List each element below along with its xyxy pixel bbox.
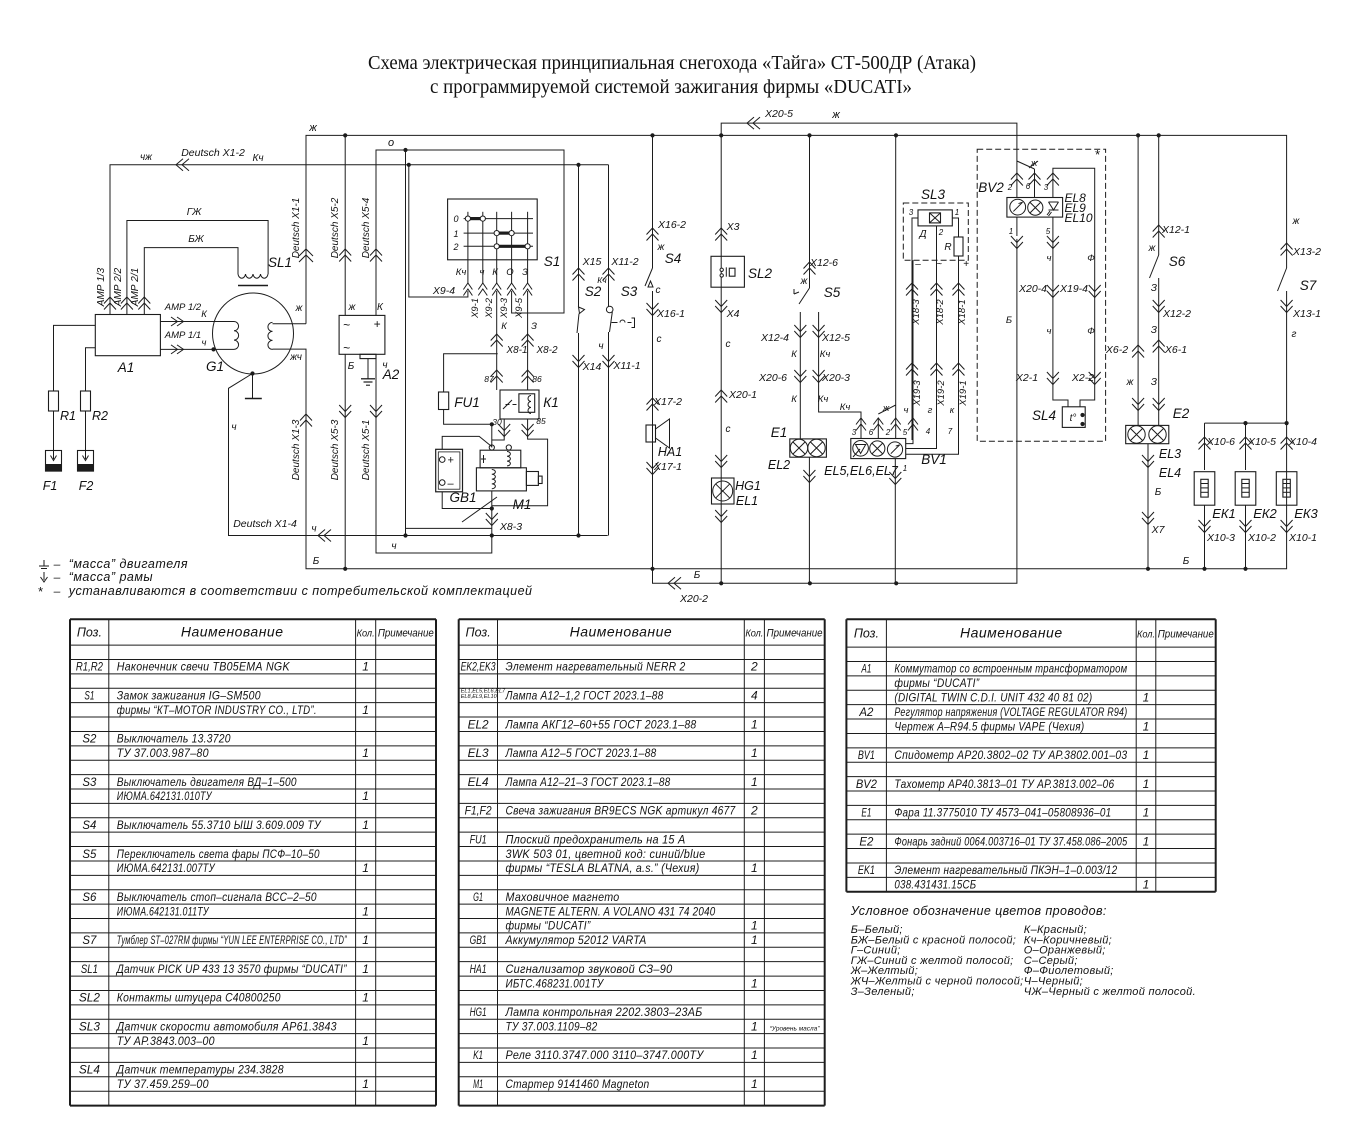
svg-text:~: ~	[936, 259, 942, 270]
svg-text:EL1: EL1	[736, 494, 758, 508]
svg-text:ИЮМА.642131.007ТУ: ИЮМА.642131.007ТУ	[117, 861, 216, 875]
svg-text:АМР 1/2: АМР 1/2	[164, 302, 202, 313]
svg-text:SL1: SL1	[268, 255, 292, 270]
svg-text:фирмы “КТ–MOTOR INDUSTRY CO.,: фирмы “КТ–MOTOR INDUSTRY CO., LTD”.	[117, 703, 317, 717]
svg-text:1: 1	[751, 1077, 758, 1091]
svg-text:К1: К1	[543, 395, 558, 410]
svg-text:чж: чж	[140, 152, 153, 163]
svg-text:Элемент нагревательный NERR 2: Элемент нагревательный NERR 2	[506, 660, 686, 674]
svg-text:ж: ж	[1126, 377, 1135, 388]
svg-text:1: 1	[362, 933, 369, 947]
svg-text:Примечание: Примечание	[1158, 629, 1214, 641]
svg-text:фирмы “DUCATI”: фирмы “DUCATI”	[506, 919, 592, 933]
svg-text:Датчик скорости автомобиля АР6: Датчик скорости автомобиля АР61.3843	[115, 1019, 337, 1033]
svg-text:ч: ч	[1047, 253, 1052, 264]
svg-text:SL1: SL1	[81, 962, 98, 976]
svg-text:ж: ж	[348, 302, 357, 313]
svg-text:+: +	[447, 455, 454, 467]
svg-text:R1,R2: R1,R2	[76, 660, 103, 674]
svg-text:Е1: Е1	[771, 425, 788, 440]
svg-text:A1: A1	[861, 662, 872, 676]
svg-text:Наименование: Наименование	[960, 625, 1063, 641]
svg-text:1: 1	[362, 904, 369, 918]
svg-text:Х17-1: Х17-1	[653, 461, 682, 473]
svg-text:ЕК1: ЕК1	[1212, 506, 1236, 521]
svg-text:1: 1	[362, 789, 369, 803]
svg-text:Контакты штуцера С40800250: Контакты штуцера С40800250	[117, 991, 281, 1005]
svg-text:–: –	[914, 259, 921, 270]
svg-text:Х18-3: Х18-3	[911, 299, 922, 326]
svg-text:BV2: BV2	[856, 777, 877, 791]
svg-text:Х20-5: Х20-5	[764, 108, 793, 120]
svg-text:Плоский предохранитель на 15 А: Плоский предохранитель на 15 А	[506, 832, 686, 846]
svg-text:1: 1	[903, 464, 907, 473]
svg-text:FU1: FU1	[470, 832, 487, 846]
svg-text:Кч: Кч	[252, 153, 263, 164]
svg-text:HA1: HA1	[470, 962, 487, 976]
svg-text:SL4: SL4	[79, 1063, 100, 1077]
svg-text:1: 1	[751, 1048, 758, 1062]
svg-text:Deutsch Х5-3: Deutsch Х5-3	[330, 419, 341, 480]
svg-text:1: 1	[1009, 227, 1013, 236]
svg-text:Х12-2: Х12-2	[1162, 308, 1191, 320]
svg-text:Х16-1: Х16-1	[656, 308, 685, 320]
svg-text:Кол.: Кол.	[1137, 630, 1155, 641]
svg-text:+: +	[373, 317, 380, 331]
svg-text:S1: S1	[544, 254, 561, 269]
svg-text:З: З	[1151, 377, 1157, 388]
svg-text:1: 1	[1143, 834, 1150, 848]
svg-text:EL5,EL6,EL7: EL5,EL6,EL7	[824, 464, 899, 478]
svg-text:Х10-1: Х10-1	[1288, 532, 1317, 544]
svg-text:2: 2	[885, 428, 891, 437]
svg-text:З: З	[1151, 283, 1157, 294]
svg-text:EL4: EL4	[468, 775, 489, 789]
svg-text:1: 1	[751, 746, 758, 760]
svg-text:Х6-1: Х6-1	[1164, 344, 1187, 356]
svg-text:SL3: SL3	[921, 187, 946, 202]
svg-text:S1: S1	[84, 688, 94, 702]
svg-text:Спидометр АР20.3802–02 ТУ АР.3: Спидометр АР20.3802–02 ТУ АР.3802.001–03	[894, 748, 1127, 762]
svg-text:30: 30	[492, 417, 502, 427]
svg-text:1: 1	[1143, 806, 1150, 820]
svg-text:7: 7	[948, 427, 953, 436]
svg-text:1: 1	[362, 962, 369, 976]
svg-text:S6: S6	[1169, 254, 1186, 269]
svg-text:EL3: EL3	[468, 746, 489, 760]
svg-text:Поз.: Поз.	[854, 627, 879, 641]
svg-text:Х19-4: Х19-4	[1059, 283, 1088, 295]
svg-text:ГЖ: ГЖ	[187, 207, 202, 218]
svg-text:Выключатель 13.3720: Выключатель 13.3720	[117, 732, 231, 746]
svg-text:Deutsch Х1-2: Deutsch Х1-2	[181, 147, 245, 159]
svg-text:1: 1	[751, 933, 758, 947]
svg-text:Х2-2: Х2-2	[1071, 372, 1094, 384]
svg-text:ИЮМА.642131.011ТУ: ИЮМА.642131.011ТУ	[117, 904, 210, 918]
svg-text:EK1: EK1	[858, 863, 875, 877]
svg-text:Реле 3110.3747.000 3110–3747: Реле 3110.3747.000 3110–3747.000ТУ	[506, 1048, 705, 1062]
svg-text:3: 3	[909, 208, 914, 217]
svg-text:З: З	[531, 321, 537, 332]
svg-text:ж: ж	[1148, 243, 1157, 254]
svg-text:–: –	[53, 570, 61, 584]
svg-text:Датчик температуры 234.3828: Датчик температуры 234.3828	[115, 1063, 284, 1077]
svg-text:ЕК3: ЕК3	[1294, 506, 1318, 521]
svg-text:~: ~	[343, 341, 350, 355]
svg-text:Выключатель 55.3710 ЫШ 3.609.0: Выключатель 55.3710 ЫШ 3.609.009 ТУ	[117, 818, 322, 832]
svg-text:Датчик PICK UP 433 13 3570 фир: Датчик PICK UP 433 13 3570 фирмы “DUCATI…	[115, 962, 347, 976]
svg-text:ТУ АР.3843.003–00: ТУ АР.3843.003–00	[117, 1034, 215, 1048]
svg-text:S7: S7	[1300, 278, 1317, 293]
svg-text:Условное обозначение цветов пр: Условное обозначение цветов проводов:	[850, 904, 1107, 918]
svg-text:Х10-3: Х10-3	[1206, 532, 1235, 544]
svg-text:Deutsch Х1-4: Deutsch Х1-4	[233, 518, 297, 530]
svg-text:Х11-1: Х11-1	[612, 360, 640, 372]
svg-text:З: З	[1151, 325, 1157, 336]
svg-text:Стартер 9141460 Magneton: Стартер 9141460 Magneton	[506, 1077, 650, 1091]
svg-text:ж: ж	[831, 109, 840, 121]
svg-text:FU1: FU1	[454, 395, 480, 410]
svg-text:Кч: Кч	[818, 394, 829, 405]
svg-text:F1: F1	[43, 479, 58, 493]
svg-text:K1: K1	[473, 1048, 483, 1062]
svg-text:с программируемой системой заж: с программируемой системой зажигания фир…	[430, 76, 912, 98]
svg-text:t°: t°	[1070, 413, 1077, 424]
svg-text:Лампа А12–1,2 ГОСТ 2023.1–88: Лампа А12–1,2 ГОСТ 2023.1–88	[505, 688, 664, 702]
svg-text:1: 1	[751, 976, 758, 990]
svg-text:с: с	[657, 334, 662, 345]
svg-text:2: 2	[750, 660, 758, 674]
svg-text:HG1: HG1	[470, 1005, 487, 1019]
svg-text:Фонарь задний 0064.003716–01 Т: Фонарь задний 0064.003716–01 ТУ 37.458.0…	[894, 834, 1127, 848]
svg-text:Лампа контрольная 2202.3803–23: Лампа контрольная 2202.3803–23АБ	[505, 1005, 703, 1019]
svg-text:Б: Б	[1155, 487, 1162, 498]
svg-text:EL4: EL4	[1159, 466, 1181, 480]
svg-text:Х14: Х14	[582, 361, 602, 373]
svg-text:ЕК2: ЕК2	[1253, 506, 1277, 521]
svg-text:1: 1	[1143, 748, 1150, 762]
svg-text:г: г	[1292, 329, 1297, 340]
svg-text:6: 6	[1026, 182, 1031, 191]
svg-text:~: ~	[343, 318, 350, 332]
svg-text:НА1: НА1	[658, 445, 682, 459]
svg-text:1: 1	[955, 208, 959, 217]
svg-text:–: –	[447, 478, 455, 490]
svg-text:1: 1	[362, 1077, 369, 1091]
svg-text:Х9-1: Х9-1	[470, 298, 481, 319]
svg-text:Фара 11.3775010 ТУ 4573–041–05: Фара 11.3775010 ТУ 4573–041–05808936–01	[894, 806, 1111, 820]
svg-text:ЧЖ–Черный с желтой полосой.: ЧЖ–Черный с желтой полосой.	[1024, 986, 1196, 998]
svg-text:SL2: SL2	[748, 266, 773, 281]
svg-text:А1: А1	[117, 360, 135, 375]
svg-text:Примечание: Примечание	[767, 628, 823, 640]
svg-text:Deutsch Х1-3: Deutsch Х1-3	[291, 419, 302, 480]
svg-text:5: 5	[1046, 227, 1051, 236]
svg-text:Х9-4: Х9-4	[432, 285, 455, 297]
svg-text:–: –	[53, 584, 61, 598]
svg-text:ч: ч	[231, 422, 236, 433]
svg-text:BV1: BV1	[858, 748, 875, 762]
svg-text:с: с	[726, 424, 731, 435]
svg-text:АМР 2/2: АМР 2/2	[113, 267, 124, 307]
svg-text:ж: ж	[1292, 216, 1301, 227]
svg-text:Замок зажигания IG–SM500: Замок зажигания IG–SM500	[117, 688, 261, 702]
svg-text:Deutsch Х5-2: Deutsch Х5-2	[330, 197, 341, 258]
svg-text:ж: ж	[295, 303, 304, 314]
svg-text:G1: G1	[206, 359, 224, 374]
svg-text:S7: S7	[82, 933, 97, 947]
svg-text:5: 5	[903, 428, 908, 437]
svg-text:Deutsch Х5-4: Deutsch Х5-4	[361, 197, 372, 258]
svg-text:Х8-1: Х8-1	[505, 345, 527, 356]
svg-text:ж: ж	[800, 276, 809, 287]
svg-text:Сигнализатор звуковой СЗ–90: Сигнализатор звуковой СЗ–90	[506, 962, 673, 976]
svg-text:87: 87	[484, 374, 494, 384]
svg-text:1: 1	[1143, 690, 1150, 704]
svg-text:Х4: Х4	[726, 308, 740, 320]
svg-text:Лампа А12–5 ГОСТ 2023.1–88: Лампа А12–5 ГОСТ 2023.1–88	[505, 746, 657, 760]
svg-text:ч: ч	[382, 360, 387, 371]
svg-text:HG1: HG1	[735, 479, 761, 493]
svg-text:Элемент нагревательный ПКЭН–1–: Элемент нагревательный ПКЭН–1–0.003/12	[894, 863, 1117, 877]
svg-text:ТУ 37.459.259–00: ТУ 37.459.259–00	[117, 1077, 209, 1091]
svg-text:86: 86	[532, 374, 542, 384]
svg-text:Х20-3: Х20-3	[821, 372, 850, 384]
svg-text:2: 2	[750, 804, 758, 818]
svg-text:устанавливаются в соответств: устанавливаются в соответствии с потреби…	[68, 584, 533, 598]
svg-text:Х10-4: Х10-4	[1288, 436, 1317, 448]
svg-text:ч: ч	[1047, 326, 1052, 337]
svg-text:G1: G1	[473, 890, 483, 904]
svg-text:Д: Д	[918, 229, 926, 240]
svg-text:Чертеж А–R94.5 фирмы VAPE (Чех: Чертеж А–R94.5 фирмы VAPE (Чехия)	[894, 719, 1084, 733]
svg-text:Х6-2: Х6-2	[1105, 344, 1128, 356]
svg-text:“масса” двигателя: “масса” двигателя	[69, 557, 188, 571]
svg-text:–: –	[53, 557, 61, 571]
svg-text:3: 3	[852, 428, 857, 437]
svg-text:S5: S5	[824, 285, 841, 300]
svg-text:0: 0	[453, 214, 458, 224]
svg-text:4: 4	[926, 427, 931, 436]
svg-text:Х20-6: Х20-6	[758, 372, 787, 384]
svg-text:г: г	[928, 405, 933, 416]
svg-text:A2: A2	[858, 705, 873, 719]
svg-text:1: 1	[453, 229, 458, 239]
svg-text:о: о	[388, 137, 394, 149]
svg-text:ИБТС.468231.001ТУ: ИБТС.468231.001ТУ	[506, 976, 605, 990]
svg-text:с: с	[726, 339, 731, 350]
svg-text:Х20-4: Х20-4	[1018, 283, 1047, 295]
svg-text:EL8,EL9,EL10: EL8,EL9,EL10	[461, 694, 498, 700]
svg-text:1: 1	[362, 861, 369, 875]
svg-text:1: 1	[1143, 878, 1150, 892]
svg-text:фирмы “TESLA BLATNA, a.s.” (Че: фирмы “TESLA BLATNA, a.s.” (Чехия)	[506, 861, 700, 875]
svg-text:АМР 2/1: АМР 2/1	[130, 268, 141, 307]
svg-text:Х9-3: Х9-3	[499, 297, 510, 319]
svg-text:1: 1	[362, 703, 369, 717]
svg-text:Х12-4: Х12-4	[760, 332, 789, 344]
svg-text:к: к	[950, 405, 955, 416]
svg-text:EL2: EL2	[468, 717, 489, 731]
svg-text:Х2-1: Х2-1	[1015, 372, 1038, 384]
svg-text:1: 1	[751, 717, 758, 731]
svg-text:Тумблер ST–027RM фирмы “YUN LE: Тумблер ST–027RM фирмы “YUN LEE ENTERPRI…	[117, 933, 347, 947]
svg-text:S5: S5	[82, 847, 96, 861]
svg-text:SL2: SL2	[79, 991, 100, 1005]
svg-text:2: 2	[1007, 183, 1013, 192]
svg-text:З: З	[522, 267, 528, 278]
svg-text:Х19-3: Х19-3	[912, 380, 923, 407]
svg-text:SL4: SL4	[1032, 408, 1056, 423]
svg-text:Кол.: Кол.	[357, 629, 375, 640]
svg-text:жч: жч	[289, 352, 302, 363]
svg-text:Б: Б	[1006, 315, 1012, 326]
svg-text:Х19-2: Х19-2	[936, 380, 947, 407]
svg-text:АМР 1/1: АМР 1/1	[164, 330, 201, 341]
svg-text:EL3: EL3	[1159, 447, 1181, 461]
svg-text:ч: ч	[904, 405, 909, 416]
svg-text:Тахометр АР40.3813–01 ТУ АР.38: Тахометр АР40.3813–01 ТУ АР.3813.002–06	[894, 777, 1114, 791]
svg-text:Регулятор напряжения (VOLTAGE: Регулятор напряжения (VOLTAGE REGULATOR …	[894, 705, 1127, 719]
svg-text:E2: E2	[859, 834, 873, 848]
svg-text:ТУ 37.003.987–80: ТУ 37.003.987–80	[117, 746, 209, 760]
svg-text:ч: ч	[311, 524, 316, 535]
svg-text:4: 4	[751, 688, 758, 702]
svg-text:Коммутатор со встроенным транс: Коммутатор со встроенным трансформатором	[894, 662, 1127, 676]
svg-text:EK2,EK3: EK2,EK3	[461, 660, 496, 674]
svg-text:ж: ж	[882, 403, 890, 414]
svg-text:ТУ 37.003.1109–82: ТУ 37.003.1109–82	[506, 1019, 598, 1033]
svg-text:1: 1	[362, 1034, 369, 1048]
svg-text:Х11-2: Х11-2	[610, 256, 638, 268]
svg-text:“Уровень масла”: “Уровень масла”	[770, 1025, 821, 1032]
svg-text:S2: S2	[82, 732, 96, 746]
svg-text:Х15: Х15	[582, 256, 602, 268]
svg-text:S6: S6	[82, 890, 96, 904]
svg-text:1: 1	[362, 660, 369, 674]
svg-text:ж: ж	[308, 122, 317, 134]
svg-text:Наконечник свечи ТВ05ЕМА NGK: Наконечник свечи ТВ05ЕМА NGK	[117, 660, 291, 674]
svg-text:Кол.: Кол.	[745, 629, 763, 640]
svg-text:2: 2	[938, 228, 944, 237]
svg-text:Х17-2: Х17-2	[653, 396, 682, 408]
svg-text:Примечание: Примечание	[378, 628, 434, 640]
svg-text:Х10-2: Х10-2	[1247, 532, 1276, 544]
svg-text:R2: R2	[92, 409, 108, 423]
svg-text:1: 1	[751, 1019, 758, 1033]
svg-text:1: 1	[362, 746, 369, 760]
svg-text:ч: ч	[391, 541, 396, 552]
svg-text:R1: R1	[60, 409, 76, 423]
svg-text:Х13-1: Х13-1	[1292, 308, 1321, 320]
svg-text:EL10: EL10	[1065, 211, 1093, 225]
svg-text:Б: Б	[348, 361, 355, 372]
svg-text:1: 1	[362, 818, 369, 832]
svg-text:Поз.: Поз.	[466, 626, 491, 640]
svg-text:6: 6	[869, 428, 874, 437]
svg-text:1: 1	[751, 919, 758, 933]
svg-text:Б: Б	[694, 570, 701, 581]
svg-text:Схема электрическая принципиал: Схема электрическая принципиальная снего…	[368, 52, 976, 74]
svg-text:ИЮМА.642131.010ТУ: ИЮМА.642131.010ТУ	[117, 789, 213, 803]
svg-text:Х20-1: Х20-1	[728, 389, 757, 401]
svg-text:ч: ч	[598, 341, 603, 352]
svg-text:SL3: SL3	[79, 1019, 100, 1033]
svg-text:З–Зеленый;: З–Зеленый;	[851, 986, 915, 998]
svg-text:BV1: BV1	[921, 452, 947, 467]
svg-text:+: +	[963, 259, 969, 270]
svg-text:“масса” рамы: “масса” рамы	[69, 570, 153, 584]
svg-text:(DIGITAL TWIN C.D.I. UNIT 432: (DIGITAL TWIN C.D.I. UNIT 432 40 81 02)	[894, 690, 1092, 704]
svg-text:Х13-2: Х13-2	[1292, 246, 1321, 258]
svg-text:Маховичное магнето: Маховичное магнето	[506, 890, 620, 904]
svg-text:038.431431.15СБ: 038.431431.15СБ	[894, 878, 976, 892]
svg-text:Аккумулятор 52012 VARTA: Аккумулятор 52012 VARTA	[505, 933, 647, 947]
svg-text:Х9-2: Х9-2	[484, 297, 495, 319]
svg-text:EL2: EL2	[768, 458, 790, 472]
svg-text:MAGNETE ALTERN. A VOLANO 431 7: MAGNETE ALTERN. A VOLANO 431 74 2040	[506, 904, 716, 918]
svg-text:Ф: Ф	[1087, 253, 1095, 264]
svg-text:1: 1	[751, 861, 758, 875]
svg-text:Deutsch Х5-1: Deutsch Х5-1	[361, 420, 372, 481]
svg-text:ч: ч	[202, 338, 207, 349]
svg-text:Х12-6: Х12-6	[809, 257, 838, 269]
svg-text:Выключатель двигателя ВД–1–500: Выключатель двигателя ВД–1–500	[117, 775, 297, 789]
svg-text:F1,F2: F1,F2	[465, 804, 492, 818]
svg-text:О: О	[506, 267, 514, 278]
svg-text:Б: Б	[1183, 556, 1190, 567]
svg-text:1: 1	[1143, 777, 1150, 791]
svg-text:1: 1	[362, 991, 369, 1005]
svg-text:M1: M1	[473, 1077, 483, 1091]
svg-text:Х18-2: Х18-2	[935, 299, 946, 326]
svg-text:Deutsch Х1-1: Deutsch Х1-1	[291, 198, 302, 259]
svg-text:2: 2	[452, 242, 458, 252]
svg-text:Х19-1: Х19-1	[958, 380, 969, 406]
svg-text:Х7: Х7	[1151, 524, 1166, 536]
svg-text:Кч: Кч	[456, 267, 467, 278]
svg-text:Кч: Кч	[840, 402, 851, 413]
svg-text:S3: S3	[82, 775, 96, 789]
svg-text:Х8-3: Х8-3	[499, 521, 522, 533]
svg-text:Х8-2: Х8-2	[535, 345, 558, 356]
svg-text:Кч: Кч	[597, 275, 607, 285]
svg-text:с: с	[656, 285, 661, 296]
svg-text:М1: М1	[513, 497, 532, 512]
svg-text:3WK 503 01, цветной код: синий: 3WK 503 01, цветной код: синий/blue	[506, 847, 706, 861]
svg-text:Наименование: Наименование	[181, 624, 284, 640]
svg-text:БЖ: БЖ	[188, 234, 204, 245]
svg-text:GB1: GB1	[449, 490, 476, 505]
svg-text:S3: S3	[621, 284, 638, 299]
svg-text:S4: S4	[665, 251, 682, 266]
svg-text:Х10-5: Х10-5	[1247, 436, 1276, 448]
svg-text:Х3: Х3	[726, 221, 740, 233]
svg-text:Е2: Е2	[1173, 406, 1190, 421]
svg-text:S2: S2	[585, 284, 602, 299]
svg-text:Б: Б	[313, 556, 320, 567]
svg-text:F2: F2	[79, 479, 94, 493]
svg-text:Х12-5: Х12-5	[821, 332, 850, 344]
svg-text:S4: S4	[82, 818, 96, 832]
svg-text:Лампа АКГ12–60+55 ГОСТ 2023.: Лампа АКГ12–60+55 ГОСТ 2023.1–88	[505, 717, 697, 731]
svg-text:GB1: GB1	[470, 933, 487, 947]
svg-text:1: 1	[751, 775, 758, 789]
svg-text:1: 1	[1143, 719, 1150, 733]
svg-text:Х10-6: Х10-6	[1206, 436, 1235, 448]
svg-text:Наименование: Наименование	[570, 624, 673, 640]
svg-text:Поз.: Поз.	[77, 626, 102, 640]
